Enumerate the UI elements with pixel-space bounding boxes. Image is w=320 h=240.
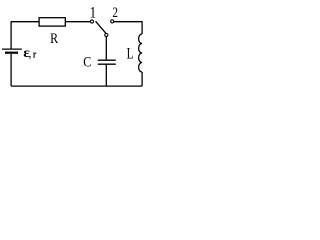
svg-text:1: 1 [90,4,97,21]
wire left vertical lower (battery to bottom-left corner) [10,54,12,86]
svg-text:R: R [50,31,58,47]
wire switch pole down to capacitor [105,37,107,60]
svg-text:L: L [127,46,134,63]
resistor R body [39,18,65,26]
switch contact 1 terminal circle [90,20,93,23]
svg-text:C: C [83,55,91,71]
svg-text:, r: , r [29,48,36,60]
wire capacitor to bottom wire [105,65,107,86]
svg-text:2: 2 [112,5,118,21]
wire right vertical lower (inductor to bottom-right corner) [141,72,143,86]
wire right vertical upper (corner to inductor) [141,21,143,34]
wire contact 2 to top-right corner [114,21,142,23]
capacitor C bottom plate [98,63,116,65]
switch contact 2 terminal circle [111,20,114,23]
wire left vertical upper (battery to top-left corner) [10,21,12,48]
battery ε,r short thick plate [5,52,18,54]
switch arm (blade from contact 1 to pole) [96,21,106,33]
inductor L coil (4 left-bulging arcs) [139,34,143,72]
wire top-left from battery branch to resistor [11,21,39,23]
switch pole pivot circle [105,33,108,36]
wire resistor to switch contact 1 [65,21,90,23]
capacitor C top plate [98,59,116,61]
wire bottom horizontal [11,85,142,87]
battery ε,r long plate [2,48,22,50]
